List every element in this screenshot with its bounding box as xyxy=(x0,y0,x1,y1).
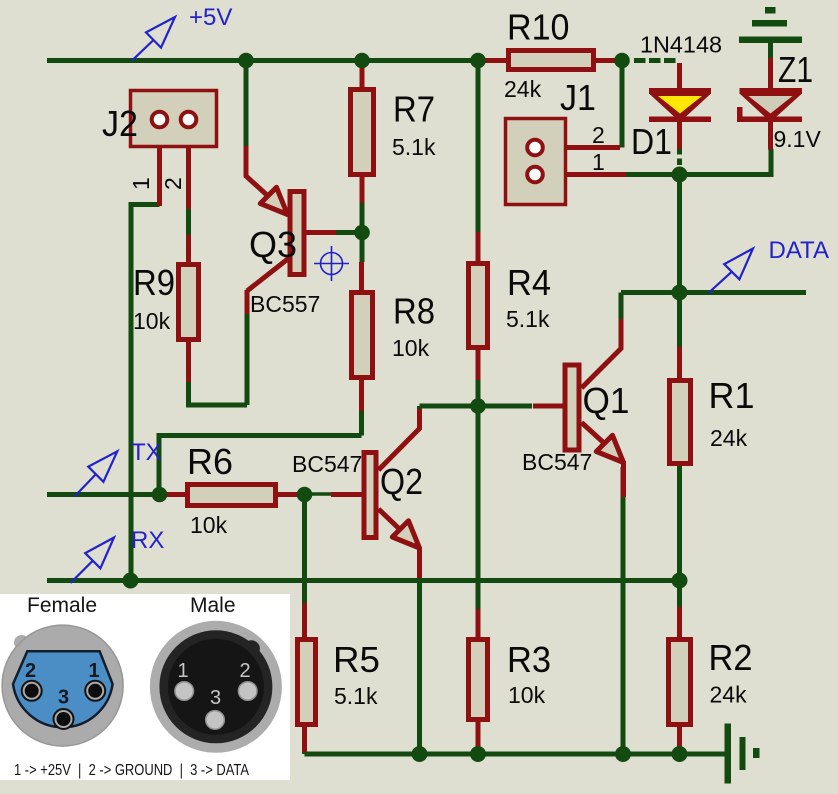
svg-text:3: 3 xyxy=(58,687,69,709)
svg-text:5.1k: 5.1k xyxy=(392,134,436,160)
svg-text:J1: J1 xyxy=(560,77,596,118)
svg-text:10k: 10k xyxy=(508,682,546,708)
svg-text:R1: R1 xyxy=(709,375,755,416)
svg-text:3: 3 xyxy=(210,687,221,709)
svg-text:1 -> +25V | 2 -> GROUND |: 1 -> +25V | 2 -> GROUND | 3 -> DATA xyxy=(14,762,249,779)
svg-text:R7: R7 xyxy=(393,89,435,130)
svg-text:R4: R4 xyxy=(507,262,551,303)
svg-text:Q2: Q2 xyxy=(380,461,423,502)
svg-text:5.1k: 5.1k xyxy=(334,683,378,709)
svg-text:J2: J2 xyxy=(102,103,138,144)
svg-text:1: 1 xyxy=(89,660,100,682)
svg-text:2: 2 xyxy=(160,177,186,190)
svg-text:Male: Male xyxy=(190,594,236,617)
svg-text:R3: R3 xyxy=(507,639,551,680)
svg-text:24k: 24k xyxy=(504,76,542,102)
svg-text:R8: R8 xyxy=(393,291,435,332)
svg-text:R5: R5 xyxy=(333,639,380,680)
svg-text:10k: 10k xyxy=(133,308,171,334)
svg-text:Q1: Q1 xyxy=(583,380,630,421)
svg-text:R6: R6 xyxy=(187,441,233,482)
svg-text:RX: RX xyxy=(131,527,164,554)
svg-text:D1: D1 xyxy=(631,121,672,162)
svg-text:5.1k: 5.1k xyxy=(506,306,550,332)
svg-text:R10: R10 xyxy=(507,7,570,48)
svg-text:R2: R2 xyxy=(709,637,753,678)
svg-text:TX: TX xyxy=(131,439,162,466)
svg-text:2: 2 xyxy=(240,660,251,682)
svg-text:9.1V: 9.1V xyxy=(774,126,822,152)
svg-text:24k: 24k xyxy=(710,682,748,708)
svg-text:2: 2 xyxy=(25,660,36,682)
svg-text:10k: 10k xyxy=(190,512,228,538)
svg-text:1: 1 xyxy=(178,660,189,682)
svg-text:DATA: DATA xyxy=(769,237,829,264)
svg-text:BC547: BC547 xyxy=(522,449,592,475)
svg-text:BC547: BC547 xyxy=(292,451,362,477)
svg-text:+5V: +5V xyxy=(189,4,232,31)
svg-text:1: 1 xyxy=(592,149,605,175)
svg-text:R9: R9 xyxy=(133,262,175,303)
svg-text:2: 2 xyxy=(592,122,605,148)
svg-text:Z1: Z1 xyxy=(778,49,813,90)
svg-text:24k: 24k xyxy=(710,425,748,451)
svg-text:1: 1 xyxy=(128,177,154,190)
svg-text:10k: 10k xyxy=(392,335,430,361)
svg-text:Q3: Q3 xyxy=(249,224,297,265)
svg-text:1N4148: 1N4148 xyxy=(640,32,722,58)
svg-text:Female: Female xyxy=(27,594,97,617)
svg-text:BC557: BC557 xyxy=(250,291,320,317)
